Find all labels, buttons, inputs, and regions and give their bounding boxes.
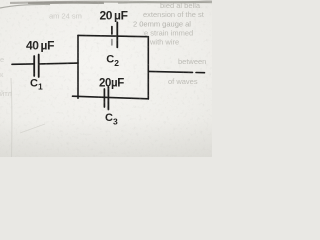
capacitor C1 — [34, 55, 39, 78]
wire C1 to left junction — [40, 62, 79, 65]
wire bottom branch — [73, 96, 149, 99]
wire left lead — [12, 63, 33, 65]
circuit ink — [12, 22, 205, 109]
wire left junction vertical — [77, 35, 79, 98]
wire top branch — [78, 35, 148, 36]
top scan edge band — [10, 1, 212, 4]
decorative scan background (bleed-through text and smudges) — [0, 1, 206, 98]
value and reference labels — [26, 9, 128, 127]
capacitor C3 — [104, 87, 108, 110]
wire right junction vertical — [147, 37, 149, 99]
wire right lead — [148, 71, 204, 72]
capacitor C2 — [112, 22, 117, 47]
